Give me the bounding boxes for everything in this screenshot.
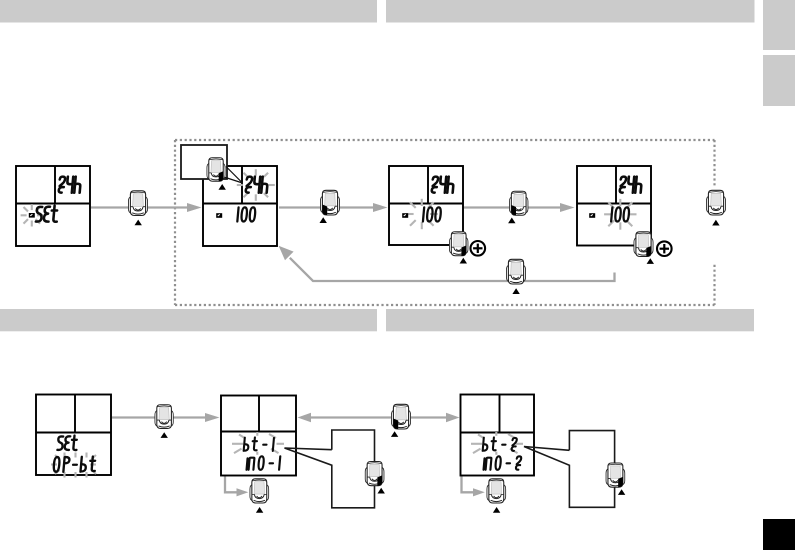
lcd "100" step2 xyxy=(237,207,255,221)
lcd "24h" step2 (blinking) xyxy=(246,177,268,193)
header bar left xyxy=(0,0,377,23)
lcd "100" step4 (blinking) xyxy=(611,207,629,221)
blink rays step5 OP-bt xyxy=(51,453,96,478)
lcd "SEt" step5 xyxy=(57,436,77,451)
display step4 (100 blink) xyxy=(577,166,651,246)
device icon MODE exit xyxy=(706,190,725,225)
display step6 (bt-1) xyxy=(221,396,296,476)
device icon right-button step6 callout xyxy=(365,461,385,493)
blink rays step4 100 xyxy=(604,199,636,230)
side tab 2 xyxy=(763,55,795,106)
device icon left-button step2-3 xyxy=(320,190,340,223)
footer page block xyxy=(763,519,795,550)
display step7 (bt-2) xyxy=(461,395,535,476)
mode icon step3 xyxy=(402,213,408,218)
header bar right xyxy=(386,0,755,23)
lcd "bt-2" step7 (blinking) xyxy=(483,437,517,451)
device icon right-button step7 callout xyxy=(606,463,625,495)
arrow step2-3 xyxy=(279,203,388,212)
device icon +button step3 xyxy=(449,232,468,264)
display step5 (OP-bt) xyxy=(36,395,111,476)
white plate behind exit icon xyxy=(703,186,728,264)
blink rays step1 icon xyxy=(21,204,43,226)
side tab 1 xyxy=(763,0,795,50)
arrow step3-4 xyxy=(463,203,575,212)
device icon MODE below step6 xyxy=(250,479,269,513)
pointer lines icon to 24h xyxy=(224,167,243,184)
blink rays step2 24h xyxy=(237,169,275,201)
double arrow step6-7 xyxy=(298,413,460,423)
callout balloon step6 xyxy=(285,430,375,508)
device icon MODE below step7 xyxy=(487,479,506,513)
lcd "bt-1" step6 (blinking) xyxy=(244,437,274,451)
device icon MODE return xyxy=(506,259,525,294)
display step2 (24h blink) xyxy=(203,166,277,246)
callout box (mode button inset) xyxy=(181,145,227,179)
lcd "MO-2" step7 xyxy=(484,456,522,470)
lcd "24h" step1 xyxy=(59,177,81,193)
arrow step5-6 xyxy=(112,413,220,422)
device icon left-button step6-7 xyxy=(391,404,411,437)
lcd "100" step3 (blinking) xyxy=(423,207,441,221)
L-arrow below step7 xyxy=(462,476,485,497)
mode icon step1 xyxy=(29,213,35,218)
device icon MODE step5-6 xyxy=(155,405,173,438)
lcd "OP-bt" step5 (blinking) xyxy=(53,457,96,472)
device icon MODE step1-2 xyxy=(128,191,147,226)
arrow step1-2 xyxy=(91,203,202,212)
section bar left xyxy=(0,309,377,331)
display step1 (SEt) xyxy=(16,166,90,246)
blink rays step3 100 xyxy=(406,199,438,229)
lcd "SEt" step1 xyxy=(36,206,58,222)
device icon +button step4 xyxy=(634,232,654,264)
lcd "24h" step4 xyxy=(620,177,642,193)
plus symbol step3 xyxy=(471,241,486,256)
mode icon step2 xyxy=(216,213,222,218)
L-arrow below step6 xyxy=(225,476,248,497)
device icon step2 (press right button) xyxy=(207,158,226,190)
display step3 (100 blink) xyxy=(389,166,463,245)
dotted frame xyxy=(175,140,715,305)
device icon left-button step3-4 xyxy=(508,191,528,223)
callout balloon step7 xyxy=(524,431,615,508)
plus symbol step4 xyxy=(657,241,672,256)
return arrow xyxy=(290,258,615,281)
lcd "MO-1" step6 xyxy=(247,456,281,470)
mode icon step4 xyxy=(589,213,595,218)
section bar right xyxy=(386,309,754,331)
lcd "24h" step3 xyxy=(432,177,454,193)
blink rays step6 bt-1 xyxy=(232,432,284,455)
blink rays step7 bt-2 xyxy=(471,432,523,455)
